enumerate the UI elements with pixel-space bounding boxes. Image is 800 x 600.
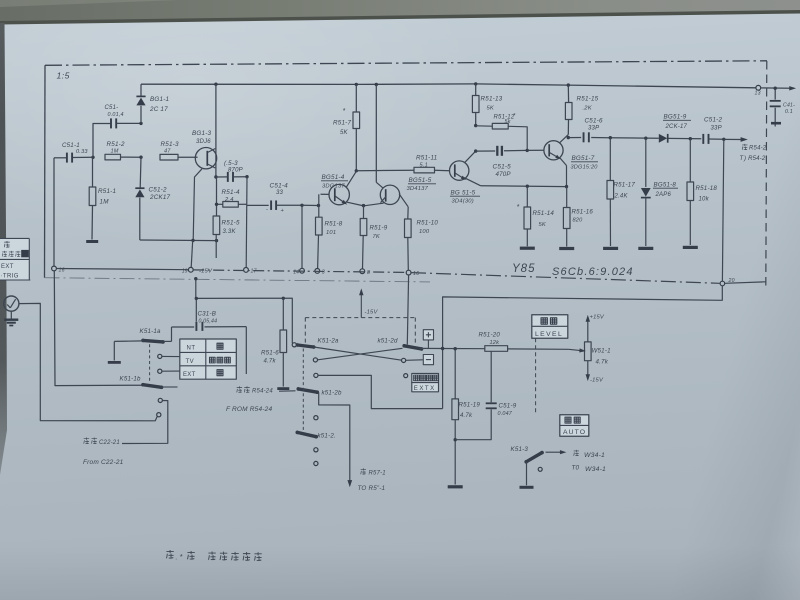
wire tap down	[196, 279, 292, 344]
svg-text:·TRIG: ·TRIG	[1, 274, 19, 280]
ground R51-17	[603, 247, 618, 250]
wire to terminal 19	[191, 240, 193, 267]
resistor R51-6 4.7K	[282, 298, 284, 330]
node rail-BG51-3	[214, 83, 217, 86]
svg-text:33P: 33P	[588, 126, 599, 132]
svg-text:W34-1: W34-1	[585, 466, 606, 473]
svg-text:5K: 5K	[340, 130, 349, 136]
contact NC row2	[314, 373, 318, 377]
svg-text:BG51-5: BG51-5	[409, 177, 432, 184]
svg-text:R51-18: R51-18	[696, 185, 718, 192]
svg-text:R51-19: R51-19	[459, 402, 481, 409]
ground R51-6	[277, 387, 289, 390]
label From R54-24	[237, 386, 242, 392]
ground K51-1a	[108, 361, 121, 364]
node diode column / C51-2	[139, 122, 142, 125]
wire top supply rail	[141, 84, 756, 88]
svg-text:2C 17: 2C 17	[149, 106, 168, 113]
svg-text:k51-2d: k51-2d	[378, 338, 398, 345]
capacitor C41	[774, 88, 776, 99]
ground R51-19	[448, 485, 463, 488]
svg-text:C51-6: C51-6	[585, 118, 603, 125]
capacitor C51-9 0.047u	[490, 351, 492, 402]
ground R51-14	[520, 247, 535, 250]
capacitor C51-6 33P	[568, 137, 581, 139]
diode BG51-8 2AP6	[645, 138, 647, 187]
svg-text:) R54-2: ) R54-2	[743, 156, 766, 162]
ground K51-3	[520, 486, 534, 489]
resistor R51-4 2.4K	[217, 203, 223, 205]
transistor BG51-4 left	[346, 171, 356, 187]
svg-text:BG1-3: BG1-3	[192, 130, 211, 137]
svg-text:13: 13	[755, 91, 761, 97]
svg-text:From C22-21: From C22-21	[83, 459, 124, 466]
svg-text:S6Cb.6:9.024: S6Cb.6:9.024	[552, 266, 634, 278]
svg-text:EXT: EXT	[183, 372, 196, 378]
svg-text:R51-13: R51-13	[481, 96, 503, 103]
svg-text:2AP6: 2AP6	[655, 192, 672, 198]
svg-text:NT: NT	[187, 346, 196, 352]
wire output arrow R54-2	[724, 138, 742, 140]
crossover wires	[314, 347, 402, 360]
LEVEL box	[532, 315, 568, 339]
capacitor C31-B	[172, 326, 195, 328]
capacitor C51-4 33u	[247, 204, 269, 206]
svg-text:T0: T0	[572, 465, 580, 472]
svg-text:C51-5: C51-5	[493, 164, 512, 171]
svg-text:BG51-8: BG51-8	[654, 182, 677, 189]
node -15V/R51-5	[215, 239, 218, 242]
wire C31-B branch	[195, 298, 197, 321]
resistor R51-12 5K	[476, 125, 493, 127]
node BG51-8	[644, 137, 647, 140]
svg-text:Y85: Y85	[512, 263, 535, 275]
resistor R51-11 5.1	[356, 169, 414, 172]
svg-text:R51-10: R51-10	[417, 220, 439, 227]
resistor R51-10 100	[407, 207, 409, 219]
svg-text:5.1: 5.1	[420, 162, 428, 168]
svg-text:R51-9: R51-9	[370, 225, 388, 232]
svg-text:C51-4: C51-4	[270, 183, 289, 190]
node R51-3 tap	[139, 156, 142, 159]
svg-text:+15V: +15V	[590, 315, 605, 321]
AUTO box	[560, 415, 589, 437]
resistor R51-13 5K	[475, 84, 477, 96]
contact K51-2b lower	[314, 416, 318, 420]
resistor R51-7 5K	[355, 84, 357, 112]
svg-text:870P: 870P	[228, 168, 243, 174]
node emitter/R51-16	[565, 185, 568, 188]
bus line left	[56, 269, 188, 270]
svg-text:R51-1: R51-1	[98, 188, 116, 195]
svg-text:C51-9: C51-9	[499, 403, 517, 410]
svg-text:BG51-7: BG51-7	[572, 155, 595, 162]
wire output down to 20	[722, 139, 723, 281]
terminal 17	[244, 268, 249, 273]
node rail-R51-13	[474, 82, 477, 85]
svg-text:16: 16	[413, 271, 419, 277]
node output/20	[722, 138, 725, 141]
wire K51-2b to arrow	[319, 392, 350, 481]
svg-text:*: *	[517, 204, 520, 211]
svg-text:1M: 1M	[100, 199, 110, 206]
svg-text:R51-15: R51-15	[577, 96, 599, 103]
node frame tap	[194, 277, 197, 280]
node C51-1/R51-1/R51-2	[91, 156, 94, 159]
svg-text:k51-2.: k51-2.	[318, 433, 336, 440]
contact minus	[313, 358, 317, 362]
svg-text:TV: TV	[186, 359, 195, 365]
svg-text:.2K: .2K	[583, 106, 593, 112]
svg-text:3: 3	[322, 270, 325, 276]
svg-text:1M: 1M	[111, 148, 119, 154]
svg-text:R51-4: R51-4	[222, 189, 240, 196]
bus line right	[411, 273, 720, 284]
svg-text:*: *	[513, 114, 516, 120]
svg-text:0.1: 0.1	[785, 109, 793, 115]
svg-text:17: 17	[251, 269, 258, 275]
svg-text:4.7k: 4.7k	[596, 359, 609, 366]
node R51-7 bottom	[355, 169, 358, 172]
svg-text:*: *	[180, 552, 184, 561]
svg-text:1:5: 1:5	[57, 71, 70, 81]
arrow -15V	[360, 294, 362, 318]
wire input column x54	[53, 158, 55, 266]
svg-text:33P: 33P	[711, 126, 722, 132]
dashed link level	[535, 338, 537, 414]
svg-text:C51-2: C51-2	[149, 187, 167, 194]
svg-text:AUTO: AUTO	[563, 429, 586, 436]
svg-text:LEVEL: LEVEL	[535, 331, 563, 338]
frame right edge	[766, 61, 767, 289]
output line	[608, 137, 659, 140]
svg-text:-: -	[266, 207, 268, 213]
ground R51-18	[683, 246, 698, 249]
wire BG51-3 source left leg	[193, 169, 202, 240]
frame left edge	[44, 65, 47, 277]
node rail-R51-15	[567, 83, 570, 86]
wire rail to C41	[761, 87, 791, 89]
svg-text:5K: 5K	[539, 222, 547, 228]
svg-text:5k: 5k	[505, 119, 511, 125]
ground R51-16	[559, 247, 574, 250]
dashed enclosure	[305, 317, 415, 319]
wire 20 loop to lower section	[443, 286, 723, 409]
capacitor C51-1	[54, 157, 66, 159]
svg-text:TO R5”-1: TO R5”-1	[358, 485, 386, 492]
svg-text:-15V: -15V	[199, 268, 213, 274]
svg-text:R51-16: R51-16	[572, 209, 594, 216]
svg-text:47: 47	[164, 149, 171, 155]
svg-text:C51-: C51-	[105, 105, 119, 111]
svg-text:K51-1b: K51-1b	[120, 376, 142, 383]
svg-text:3.3K: 3.3K	[223, 229, 237, 235]
terminal 16 left	[52, 266, 57, 271]
svg-text:*: *	[343, 108, 346, 115]
wire from C22-21	[122, 401, 168, 444]
svg-text:3DG15:20: 3DG15:20	[571, 165, 599, 171]
node collector out	[567, 136, 570, 139]
terminal 16 mid	[406, 270, 411, 275]
svg-text:-15V: -15V	[590, 378, 604, 384]
svg-text:C51-2: C51-2	[704, 117, 722, 124]
potentiometer W51-1 4.7K	[587, 321, 589, 342]
emitters common node	[346, 202, 362, 206]
node source BG51-3	[214, 175, 217, 178]
diode BG51-1 2CK17	[140, 84, 142, 96]
transistor BG51-7	[544, 141, 563, 160]
svg-text:3DJ6: 3DJ6	[196, 139, 211, 145]
svg-text:R57-1: R57-1	[369, 471, 386, 477]
wire contact to return	[318, 375, 443, 408]
ground BG51-8	[638, 247, 653, 250]
-15V rail y240	[140, 239, 217, 242]
wire to W34-1	[546, 451, 561, 453]
svg-text:10k: 10k	[699, 197, 710, 203]
diode BG51-2 2CK17	[139, 157, 142, 187]
plus box	[423, 330, 433, 340]
svg-text:4.7k: 4.7k	[264, 359, 277, 365]
svg-text:100: 100	[419, 229, 430, 235]
svg-text:R54-2: R54-2	[749, 146, 767, 152]
svg-text:R51-11: R51-11	[416, 155, 437, 162]
svg-text:K51-1a: K51-1a	[140, 328, 162, 335]
svg-text:C51-1: C51-1	[62, 142, 80, 149]
wire to terminal 14	[301, 205, 303, 268]
node -15V/19	[191, 239, 194, 242]
resistor R51-20 12K	[443, 348, 485, 350]
contact K51-1b 1	[158, 398, 162, 402]
svg-text:-15V: -15V	[365, 310, 379, 316]
svg-text:K51-2a: K51-2a	[318, 338, 340, 345]
ground R51-1	[86, 240, 98, 243]
contact NC2	[158, 369, 162, 373]
node R51-13/R51-12	[474, 124, 477, 127]
wire K51-2d to R51-20 node	[420, 347, 443, 349]
svg-text:5K: 5K	[487, 106, 495, 112]
svg-text:BG51-9: BG51-9	[664, 114, 687, 121]
wire C31-B down	[245, 327, 247, 374]
note bottom	[166, 550, 173, 558]
contacts K51-2c	[314, 448, 318, 452]
node C51-3 right	[245, 175, 248, 178]
resistor R51-3 47	[160, 154, 178, 160]
terminal 20	[720, 281, 725, 286]
svg-text:F: F	[226, 406, 231, 413]
node emitter/R51-14	[526, 185, 529, 188]
label to R57-1	[361, 468, 366, 474]
resistor R51-17 2.4K	[609, 138, 611, 181]
svg-text:2.4K: 2.4K	[614, 194, 629, 200]
emitter line	[481, 185, 567, 188]
wire 16 down to K51-1b	[54, 271, 143, 386]
svg-text:2CK17: 2CK17	[149, 194, 171, 201]
diode BG51-9 2CK-17	[659, 134, 667, 143]
svg-text:ROM R54-24: ROM R54-24	[232, 406, 272, 413]
terminal 13	[756, 85, 761, 90]
svg-text:2.4: 2.4	[224, 197, 234, 203]
svg-text:R51-7: R51-7	[333, 120, 351, 127]
svg-text:3D4137: 3D4137	[407, 186, 429, 192]
capacitor C51-3 870P	[227, 172, 229, 182]
svg-text:12k: 12k	[490, 340, 501, 346]
svg-text:R51-5: R51-5	[222, 220, 240, 227]
svg-text:14: 14	[293, 269, 299, 275]
resistor R51-2 1M	[105, 154, 121, 160]
svg-text:R51-8: R51-8	[325, 221, 343, 228]
svg-text:R51-20: R51-20	[479, 332, 501, 339]
node rail-BG51-4	[375, 83, 378, 86]
svg-text:33: 33	[276, 190, 284, 196]
resistor R51-18 10K	[689, 139, 691, 182]
resistor R51-9 7K	[363, 206, 365, 219]
svg-text:C41-: C41-	[783, 103, 795, 109]
transistor BG51-4 right	[375, 85, 377, 183]
wire column to terminal 17	[245, 177, 248, 268]
capacitor C51-2b 33P	[702, 134, 704, 144]
wire 16 to K51-2d	[407, 275, 408, 345]
resistor R51-15 2K	[567, 85, 569, 102]
svg-text:470P: 470P	[496, 171, 512, 178]
svg-text:BG1-1: BG1-1	[150, 96, 169, 103]
transistor BG51-5	[450, 161, 469, 180]
BNC input connector	[4, 296, 19, 311]
terminal 14	[300, 268, 305, 273]
svg-text:8: 8	[367, 270, 370, 276]
svg-text:101: 101	[326, 230, 336, 236]
resistor R51-19 4.7K	[454, 349, 456, 399]
terminal 19	[188, 267, 193, 272]
frame bottom edge	[45, 278, 431, 282]
svg-text:EXT: EXT	[1, 264, 14, 270]
svg-text:820: 820	[573, 218, 584, 224]
minus box	[423, 355, 433, 365]
node R51-18	[689, 137, 692, 140]
terminal 3	[315, 269, 320, 274]
node base column	[317, 204, 320, 207]
wire BNC to contact	[19, 303, 157, 420]
svg-text:+: +	[281, 208, 285, 214]
resistor R51-8	[318, 206, 320, 218]
svg-text:W51-1: W51-1	[592, 348, 611, 355]
svg-text:k51-2b: k51-2b	[322, 390, 342, 397]
mode table	[180, 339, 237, 379]
capacitor C51-5 470P	[476, 150, 496, 152]
svg-text:R51-6: R51-6	[261, 350, 279, 357]
node R51-6 top	[282, 297, 285, 300]
node rail-R51-7	[355, 83, 358, 86]
svg-text:K51-3: K51-3	[511, 446, 529, 453]
svg-text:0.05,44: 0.05,44	[199, 319, 218, 325]
resistor R51-1 1M	[92, 157, 94, 187]
svg-text:4.7k: 4.7k	[460, 413, 473, 419]
frame top edge	[45, 61, 767, 66]
svg-text:3DG137: 3DG137	[322, 184, 345, 190]
ext trig label box	[0, 238, 30, 280]
resistor R51-5 3.3K	[216, 177, 218, 216]
resistor R51-16 820	[566, 187, 568, 208]
terminal 8	[360, 269, 365, 274]
svg-text:W34-1: W34-1	[584, 452, 605, 459]
contact NC1	[158, 354, 162, 358]
node R51-17	[609, 136, 612, 139]
svg-text:BG51-4: BG51-4	[322, 174, 345, 181]
svg-text:R51-3: R51-3	[161, 141, 179, 148]
svg-text:0.01,4: 0.01,4	[108, 112, 124, 118]
svg-text:C22-21: C22-21	[99, 440, 120, 446]
svg-text:0.047: 0.047	[498, 411, 513, 417]
transistor BG51-3 (FET)	[215, 84, 217, 177]
resistor R51-14	[526, 186, 528, 207]
svg-text:3D4(30): 3D4(30)	[452, 199, 474, 205]
svg-text:C31-B: C31-B	[198, 311, 217, 318]
contact to minus box	[402, 358, 406, 362]
svg-text:7K: 7K	[373, 234, 381, 240]
bus line dashed mid	[193, 270, 406, 273]
svg-text:EXTX: EXTX	[414, 385, 436, 392]
svg-text:R51-17: R51-17	[614, 182, 636, 189]
ground BNC	[10, 311, 12, 319]
svg-text:R54-24: R54-24	[252, 389, 273, 395]
node R51-19	[454, 347, 457, 350]
svg-text:BG 51-5: BG 51-5	[451, 190, 476, 197]
EXT input boxes	[412, 373, 439, 382]
svg-text:.: .	[176, 555, 178, 562]
node C51-4 / 14	[300, 204, 303, 207]
node C51-5/R51-12	[526, 149, 529, 152]
K51-2 link dashed	[302, 349, 304, 432]
svg-text:(.5-3: (.5-3	[224, 160, 238, 167]
svg-text:R51-14: R51-14	[533, 210, 555, 217]
svg-text:0.33: 0.33	[76, 149, 88, 155]
K51-1 link dashed	[149, 344, 151, 383]
svg-text:R51-2: R51-2	[107, 141, 125, 148]
capacitor C51-2 0.01	[93, 124, 110, 158]
node C51-9 join	[454, 438, 457, 441]
svg-text:2CK-17: 2CK-17	[665, 124, 688, 130]
node collector BG51-5	[474, 149, 477, 152]
contact K51-1b 2	[157, 413, 161, 417]
